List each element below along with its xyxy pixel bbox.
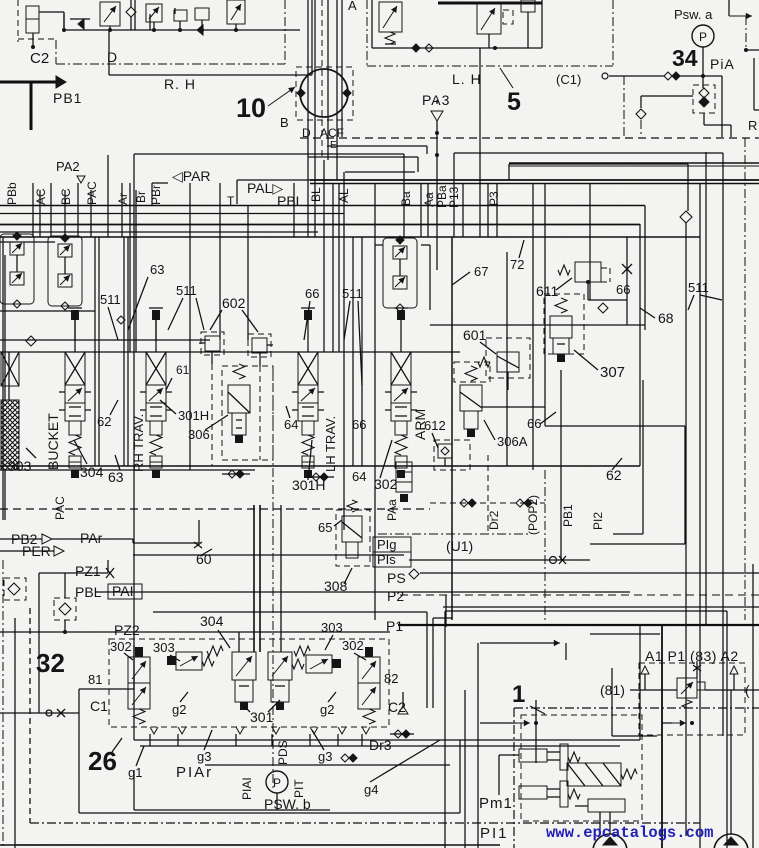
- solid box 26: [78, 689, 80, 813]
- wire x427: [426, 612, 428, 708]
- pa3 dot: [435, 131, 439, 135]
- wire 34 out: [703, 113, 705, 125]
- wire bundle vertical e: [341, 0, 343, 137]
- spool arm: [397, 310, 405, 320]
- manifold outer box: [133, 645, 135, 740]
- regulator dashed box: [521, 715, 642, 821]
- wire bundle vertical b: [314, 0, 316, 152]
- valve 612: [438, 444, 452, 458]
- L.H bottom diamonds: [412, 44, 420, 52]
- wire vertical v3: [50, 183, 52, 237]
- L.H reducing valve 2: [477, 4, 501, 34]
- valve row bus2: [0, 241, 55, 243]
- shuttle u1 a: [460, 499, 468, 507]
- R.H internal bus wire: [64, 29, 300, 31]
- wire 66loop: [545, 425, 685, 427]
- shuttle pds: [394, 730, 402, 738]
- wire vertical pair x124: [123, 237, 125, 466]
- wire p2: [443, 606, 759, 608]
- top right corner wire: [728, 0, 730, 16]
- pump circle: [714, 834, 748, 848]
- top right box corner: [753, 58, 755, 110]
- solenoid 602b: [252, 338, 267, 353]
- check valve: [78, 19, 84, 29]
- wire y612: [153, 611, 427, 613]
- dashed box 32: [29, 608, 31, 823]
- manifold top wire: [0, 631, 390, 633]
- wire vertical v27: [462, 183, 464, 237]
- left vertical x3 upper: [2, 237, 4, 520]
- valve 601: [497, 352, 519, 372]
- wire 60: [133, 554, 404, 556]
- restrictor 34: [636, 109, 646, 119]
- vertical x662: [661, 625, 663, 848]
- R.H pilot box dash-dot border: [55, 40, 57, 64]
- wire bundle vertical c: [327, 0, 329, 160]
- relief 305: [228, 385, 250, 413]
- wire x507: [506, 252, 508, 466]
- relief pair arm: [383, 238, 417, 308]
- wire a1 arrows: [516, 722, 530, 724]
- valve 306A: [460, 385, 482, 411]
- pilot valve 34 checks: [699, 88, 709, 98]
- swivel joint 10 dashed box: [296, 67, 353, 120]
- wire pb2: [0, 538, 42, 540]
- relief small: [174, 10, 187, 21]
- relief pair bottoms bus: [0, 310, 95, 312]
- pa2 marker: [77, 176, 85, 183]
- psw b wire: [134, 809, 330, 811]
- main bus low2: [0, 231, 318, 233]
- wire vertical pair x99: [98, 237, 100, 466]
- valve row lower bus2: [0, 469, 255, 471]
- shuttle mid a: [228, 470, 236, 478]
- wire vertical v34: [639, 224, 641, 466]
- pds symbol: [398, 706, 408, 714]
- vertical x745: [744, 138, 746, 620]
- ACF dashed boundary: [300, 137, 759, 139]
- pz1 check symbol: [54, 598, 76, 620]
- reducing valve D1: [100, 2, 120, 26]
- wire x433: [432, 618, 434, 708]
- wire vertical v10: [135, 190, 137, 352]
- wire C2: [39, 11, 64, 13]
- main bus dark C: [0, 224, 640, 226]
- dashed bus PAC: [0, 508, 430, 510]
- check diamond b: [117, 316, 125, 324]
- wire psw right drop: [721, 76, 723, 137]
- spool rh travel: [152, 310, 160, 320]
- main box top right: [454, 152, 723, 154]
- L.H box solid border: [371, 0, 373, 48]
- wire dr2 dashed: [487, 455, 489, 534]
- spool valve 303 left: [8, 352, 10, 400]
- a3 inner box: [611, 668, 613, 736]
- L.H top thick bus: [438, 2, 542, 5]
- wire 68 loop: [626, 237, 628, 325]
- pump wire x690: [685, 620, 687, 836]
- valve row bus y340: [0, 339, 210, 341]
- wire vertical v5: [77, 183, 79, 237]
- valve row lower bus: [0, 465, 640, 467]
- wire vertical v23: [420, 183, 422, 237]
- inner dashed: [18, 38, 56, 40]
- wire right drop: [589, 262, 591, 300]
- shuttle mid b: [312, 473, 320, 481]
- L.H reducing valve 1: [379, 2, 402, 32]
- wire vertical v18: [332, 183, 334, 352]
- main bus low1: [0, 213, 344, 215]
- psw stem: [702, 47, 704, 88]
- wire a2 arrows: [672, 722, 686, 724]
- reducing valve D3: [227, 0, 245, 24]
- pilot valve 302L: [135, 647, 143, 657]
- wire pi2: [613, 533, 643, 535]
- a3 dashed box: [639, 663, 745, 735]
- dashdot pop2: [544, 470, 546, 620]
- wire 34 left: [641, 95, 693, 97]
- wire per: [0, 550, 54, 552]
- wire vertical v29: [487, 183, 489, 237]
- wire vertical v2: [39, 190, 41, 237]
- left edge dash-dot: [2, 560, 4, 848]
- wire vertical v17: [323, 160, 325, 352]
- wire vertical v4: [64, 190, 66, 237]
- check diamond a: [26, 336, 36, 346]
- main bus mid: [0, 205, 645, 207]
- wire vertical v20: [343, 172, 345, 530]
- valve row top bus: [0, 236, 700, 238]
- wire bundle vertical a: [307, 0, 309, 137]
- junction dots: [108, 28, 112, 32]
- bus p1 dark: [398, 624, 759, 626]
- label 5 leader: [500, 68, 513, 88]
- wire bundle center dashed: [321, 0, 323, 160]
- a3 arrows: [641, 666, 649, 674]
- valve a3: [677, 678, 697, 698]
- valve 307: [550, 316, 572, 338]
- wire vertical v9: [129, 183, 131, 352]
- wire feeder c: [280, 505, 282, 652]
- valve row mid bus: [0, 351, 460, 353]
- wire vertical v30: [496, 183, 498, 237]
- relief 305 dashed box: [222, 366, 273, 460]
- pump box dash-dot: [513, 708, 515, 848]
- pm cylinder 1: [519, 749, 547, 762]
- vertical x700: [699, 183, 701, 848]
- spool lh travel: [304, 310, 312, 320]
- valve 65: [342, 516, 362, 542]
- wire vertical pair x128: [127, 237, 129, 466]
- wire feeder d: [238, 632, 240, 652]
- wire a2: [705, 689, 759, 691]
- port PB1 arrowhead: [56, 76, 66, 88]
- vertical x723b: [722, 310, 724, 611]
- pilot reducing 303R: [306, 655, 332, 673]
- solenoid 602a: [205, 336, 220, 351]
- wire pump verticals: [444, 611, 446, 848]
- wire c1: [0, 712, 79, 714]
- wire vertical v11: [189, 183, 191, 470]
- wire par: [52, 538, 133, 540]
- manifold port wires: [149, 734, 151, 746]
- manifold bottom bus: [140, 745, 620, 747]
- left bottom wire: [15, 844, 445, 846]
- wire psw drop left: [623, 76, 625, 137]
- pilot valve 34 dashed box: [693, 85, 715, 113]
- pa3 marker: [431, 111, 443, 121]
- wire vertical v1: [32, 183, 34, 237]
- wire vertical v32: [544, 183, 546, 426]
- wire vertical v25: [436, 120, 438, 270]
- wire vertical v21: [374, 183, 376, 620]
- wire vertical v24: [427, 183, 429, 237]
- wire pit: [276, 793, 278, 810]
- swivel joint 10 circle: [300, 69, 348, 117]
- pressure switch b: [266, 771, 288, 793]
- shuttle symbol: [664, 72, 672, 80]
- wire vertical v26: [453, 153, 455, 237]
- L.H box dash-dot border: [366, 0, 368, 66]
- pilot reducing 303L: [176, 652, 202, 670]
- pilot valve 304 center: [232, 652, 256, 680]
- main bus dark B: [310, 183, 759, 185]
- pal box: [236, 180, 238, 204]
- wire vertical v35: [352, 237, 354, 466]
- wire vertical v36: [361, 237, 363, 466]
- wire vertical v22: [403, 154, 405, 237]
- wire 34 drop: [640, 120, 642, 137]
- swivel joint left port: [297, 89, 305, 97]
- wire vertical v19: [338, 183, 340, 352]
- wire vertical v7: [107, 155, 109, 237]
- inner box right: [509, 163, 688, 165]
- wire ps dashed: [400, 594, 759, 596]
- vertical x686mid: [685, 223, 687, 620]
- wire pz1: [39, 572, 108, 574]
- spool arm lower stack: [396, 462, 412, 472]
- wire vertical v14: [293, 183, 295, 237]
- regulator spool: [567, 763, 621, 786]
- label 10 leader: [268, 87, 295, 106]
- relief pair bucket-left: [0, 234, 34, 304]
- wire vertical v15: [307, 137, 309, 237]
- rh top wire: [155, 310, 157, 340]
- pilot valve 302R: [365, 647, 373, 657]
- wire pbl: [95, 591, 630, 593]
- wire regulator top: [480, 642, 556, 644]
- main top line y145: [327, 145, 427, 147]
- check pb1: [550, 557, 557, 564]
- pressure switch circle P: [692, 25, 714, 47]
- regulator bottom box: [588, 799, 625, 812]
- wire vertical v16: [314, 152, 316, 237]
- L.H small square: [521, 0, 535, 12]
- wire psw left: [609, 75, 664, 77]
- dashdot vertical right of 305: [272, 366, 274, 790]
- valve 611: [575, 262, 601, 282]
- check valve 2: [197, 25, 203, 35]
- inner line right2: [508, 164, 510, 180]
- restrictor: [126, 7, 136, 17]
- extra top comp a: [195, 8, 209, 20]
- wire pb1v: [560, 370, 562, 560]
- wire bundle vertical d: [336, 0, 338, 180]
- relief pair bucket: [48, 236, 82, 306]
- R.H pilot box solid border: [108, 30, 110, 75]
- wire y610: [445, 610, 727, 612]
- wire vertical v0: [4, 255, 6, 520]
- wire vertical v8: [121, 183, 123, 237]
- wire vertical pair x95: [94, 237, 96, 466]
- main bus right dark: [509, 162, 759, 164]
- pilot valve 301 center: [268, 652, 292, 680]
- arm bottom wires: [451, 237, 453, 620]
- relief pair arm wires: [375, 244, 383, 246]
- manifold dashed box: [109, 639, 389, 727]
- left edge solid: [14, 618, 16, 848]
- main bus dark A: [310, 179, 759, 181]
- wire vertical v6: [90, 190, 92, 237]
- wire a1: [630, 689, 677, 691]
- swivel joint right port: [343, 89, 351, 97]
- pm cylinder 2: [519, 786, 547, 799]
- vertical x753: [752, 564, 754, 848]
- wire u1 dashdot: [378, 533, 528, 535]
- par wire: [152, 182, 168, 184]
- spool bucket: [71, 310, 79, 320]
- wire feeder a: [253, 505, 255, 652]
- pump wire pm1: [499, 754, 519, 756]
- wire vertical v28: [479, 48, 481, 237]
- cylinder C2: [26, 6, 39, 19]
- wire vertical v33: [589, 183, 591, 262]
- valve611 x: [622, 264, 632, 274]
- bottom border: [0, 844, 500, 846]
- wire inner pump box: [535, 700, 537, 763]
- bucket top wire: [74, 310, 76, 340]
- reducing valve D2: [146, 4, 162, 22]
- diamond ps: [409, 569, 419, 579]
- wire c1v: [38, 573, 40, 713]
- wire vertical v12: [219, 183, 221, 340]
- manifold bottom ports: [150, 727, 158, 734]
- port PB1 wire: [0, 81, 58, 84]
- shuttle piar: [341, 754, 349, 762]
- main box top left: [134, 153, 404, 155]
- extra top wire: [149, 14, 151, 30]
- shuttle u1 b: [516, 499, 524, 507]
- diamond right bus: [680, 211, 692, 223]
- wire y634: [590, 633, 660, 635]
- wire vertical v13: [247, 206, 249, 340]
- motor circle: [593, 834, 627, 848]
- vertical x706: [705, 152, 707, 625]
- wire vertical v31: [532, 183, 534, 470]
- wire feeder b: [259, 505, 261, 652]
